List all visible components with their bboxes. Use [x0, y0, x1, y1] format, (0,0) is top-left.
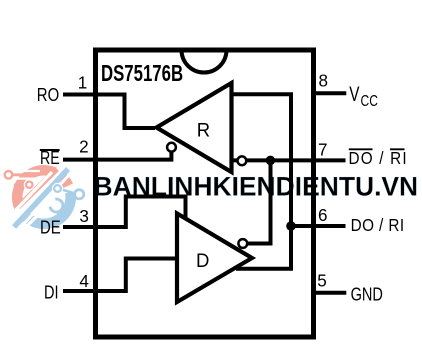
svg-text:4: 4: [79, 271, 89, 292]
receiver R triangle: [157, 83, 232, 172]
watermark logo blue G ring: [50, 199, 63, 212]
wire pin5 GND stub: [314, 291, 347, 295]
svg-text:8: 8: [318, 70, 328, 91]
overline pin7 DO: [349, 148, 373, 150]
watermark logo white gap upper: [12, 172, 52, 214]
svg-text:5: 5: [317, 270, 327, 291]
junction node bus B: [266, 156, 276, 166]
svg-text:DI: DI: [44, 283, 59, 303]
watermark logo white halo small: [52, 183, 63, 194]
bubble driver inverted output: [238, 239, 247, 248]
svg-text:DS75176B: DS75176B: [101, 62, 183, 87]
watermark logo salmon trace line A: [12, 173, 37, 176]
wire driver inverted output to bus B: [248, 162, 271, 244]
watermark logo blue trace line: [60, 189, 75, 194]
pin 1 index notch: [182, 50, 227, 73]
watermark logo blue band: [14, 169, 68, 227]
watermark logo salmon trace line B: [14, 183, 25, 185]
watermark logo: [5, 164, 84, 233]
watermark logo salmon bar: [18, 169, 57, 207]
wire pin3 DE to driver enable: [63, 197, 186, 228]
watermark logo blue pad ring large: [75, 190, 84, 199]
svg-text:3: 3: [79, 206, 89, 227]
watermark logo white cut above trace A: [16, 170, 40, 172]
watermark logo salmon arc: [17, 170, 68, 210]
wire pin4 DI to driver input: [63, 259, 176, 292]
svg-text:GND: GND: [351, 285, 383, 305]
watermark logo salmon pad ring A: [5, 171, 13, 179]
svg-text:7: 7: [318, 139, 328, 160]
junction node bus A: [286, 221, 296, 231]
bubble receiver inverting input: [238, 156, 247, 165]
watermark logo white gap band side: [17, 173, 71, 231]
svg-text:1: 1: [78, 72, 88, 93]
IC package outline U1 DS75176B: [96, 50, 314, 337]
svg-text:DE: DE: [40, 217, 61, 238]
svg-text:R: R: [197, 120, 210, 142]
svg-text:2: 2: [79, 136, 89, 157]
svg-text:DO / RI: DO / RI: [349, 148, 408, 168]
watermark logo blue arc: [19, 192, 71, 223]
watermark logo blue pad ring small: [54, 185, 61, 192]
watermark logo white halo B: [24, 179, 35, 190]
bubble receiver enable: [167, 143, 176, 152]
wire receiver input to driver output bus A: [232, 94, 292, 268]
watermark logo salmon pad ring B: [26, 182, 32, 188]
watermark logo white slash: [14, 164, 66, 220]
wire pin2 RE to receiver enable: [63, 151, 171, 160]
wire pin8 VCC stub: [314, 91, 347, 95]
watermark logo white cut below trace A: [13, 178, 36, 180]
svg-text:6: 6: [318, 205, 328, 226]
wire pin1 RO to receiver output: [63, 95, 155, 129]
svg-text:D: D: [196, 251, 209, 273]
overline pin7 RI: [390, 148, 405, 150]
svg-text:DO / RI: DO / RI: [351, 215, 405, 235]
watermark logo white gap lower: [20, 201, 52, 233]
driver D triangle: [177, 214, 252, 303]
wire pin7 bus B line: [233, 158, 346, 162]
svg-text:CC: CC: [361, 92, 378, 110]
wire pin6 bus A stub: [289, 224, 346, 228]
svg-text:RE: RE: [40, 148, 60, 168]
svg-text:RO: RO: [37, 85, 59, 106]
overline RE: [40, 149, 60, 151]
svg-text:V: V: [349, 82, 360, 106]
